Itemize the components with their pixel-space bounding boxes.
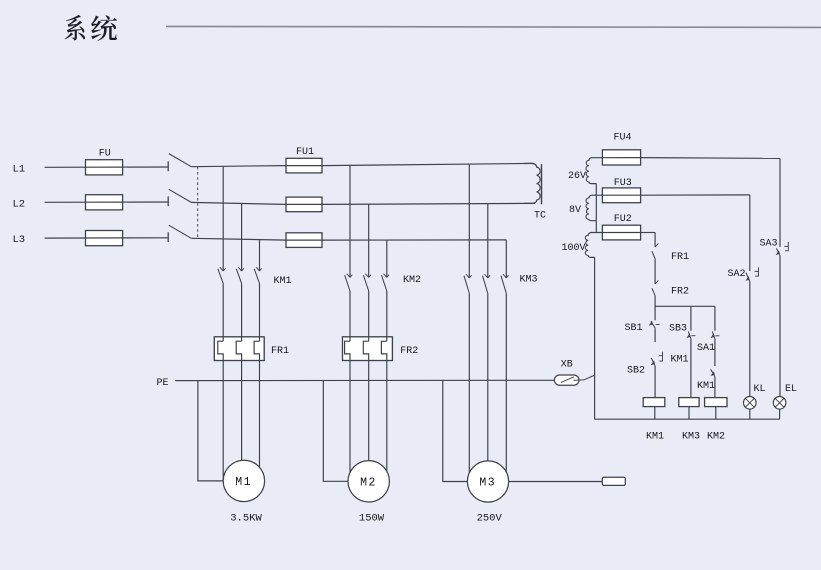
svg-text:SA1: SA1 <box>697 343 715 354</box>
svg-text:L2: L2 <box>13 198 26 210</box>
svg-text:M2: M2 <box>360 476 377 489</box>
svg-text:KM1: KM1 <box>697 381 715 392</box>
svg-text:KM2: KM2 <box>707 432 725 443</box>
svg-text:FU2: FU2 <box>614 214 632 225</box>
svg-text:KM3: KM3 <box>520 275 538 286</box>
svg-text:8V: 8V <box>569 205 581 216</box>
svg-text:SA3: SA3 <box>760 238 778 249</box>
svg-text:TC: TC <box>534 210 546 221</box>
svg-text:FR1: FR1 <box>671 252 689 263</box>
svg-text:L1: L1 <box>13 163 26 175</box>
svg-text:XB: XB <box>561 359 573 370</box>
svg-text:EL: EL <box>785 384 797 395</box>
svg-text:FR2: FR2 <box>671 287 689 298</box>
svg-text:KM1: KM1 <box>646 432 664 443</box>
svg-text:150W: 150W <box>359 513 385 525</box>
svg-text:SB1: SB1 <box>625 323 643 334</box>
svg-text:250V: 250V <box>477 513 503 525</box>
svg-text:M3: M3 <box>479 477 496 490</box>
svg-text:FU1: FU1 <box>296 147 314 158</box>
svg-text:3.5KW: 3.5KW <box>230 513 262 525</box>
svg-text:KM1: KM1 <box>274 276 292 287</box>
svg-text:M1: M1 <box>235 476 252 489</box>
svg-text:PE: PE <box>157 378 169 389</box>
svg-text:KM1: KM1 <box>671 354 689 365</box>
svg-text:FR1: FR1 <box>271 346 289 357</box>
svg-text:KL: KL <box>754 384 766 395</box>
svg-text:SB2: SB2 <box>627 366 645 377</box>
svg-text:FU4: FU4 <box>613 133 631 144</box>
svg-text:SA2: SA2 <box>728 269 746 280</box>
svg-text:L3: L3 <box>13 234 26 246</box>
svg-text:26V: 26V <box>568 171 586 182</box>
svg-text:KM2: KM2 <box>403 275 421 286</box>
svg-text:FR2: FR2 <box>400 346 418 357</box>
svg-text:100V: 100V <box>561 243 585 254</box>
svg-text:FU3: FU3 <box>614 178 632 189</box>
svg-text:KM3: KM3 <box>682 432 700 443</box>
svg-text:FU: FU <box>99 149 111 160</box>
svg-text:SB3: SB3 <box>669 324 687 335</box>
